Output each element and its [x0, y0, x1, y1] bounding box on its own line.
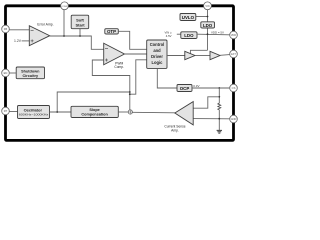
svg-text:OTP: OTP [107, 29, 116, 34]
wire PWM comp lower input loop from summer [92, 60, 130, 110]
pin CS [230, 84, 238, 92]
resistor R1 [218, 103, 221, 110]
node VDD junction [207, 33, 209, 35]
svg-text:Error Amp.: Error Amp. [37, 22, 53, 26]
pin VDD [230, 31, 238, 39]
OCP block [177, 85, 192, 92]
wire VIN pin down through LDO [207, 10, 209, 51]
svg-text:LDO: LDO [184, 33, 194, 38]
svg-text:Circuitry: Circuitry [22, 74, 39, 78]
svg-text:Shutdown: Shutdown [21, 69, 40, 73]
control and driver logic block [147, 40, 167, 68]
wire supply elbow to driver [190, 50, 207, 53]
wire slope compensation to summer [118, 111, 128, 113]
svg-text:EN: EN [4, 71, 8, 75]
svg-text:EXT: EXT [231, 53, 236, 56]
svg-text:and: and [153, 48, 161, 53]
plus mark error amp [31, 39, 34, 42]
svg-text:Comp.: Comp. [114, 65, 124, 69]
svg-text:Amp.: Amp. [171, 128, 179, 132]
wire OCP to CS pin [192, 87, 230, 89]
svg-text:VDD = 5V: VDD = 5V [211, 30, 224, 34]
svg-text:Control: Control [150, 42, 165, 47]
summing node [128, 110, 132, 114]
wire COMP pin down to rail [63, 10, 65, 36]
svg-text:Compensation: Compensation [81, 113, 108, 117]
wire control logic branch to summer node [130, 60, 147, 94]
LDO block lower [181, 32, 197, 39]
wire VDD rail to VDD pin [197, 33, 230, 36]
svg-text:RT: RT [4, 109, 8, 113]
svg-text:600KHz~1000KHz: 600KHz~1000KHz [19, 112, 49, 116]
pin RT [2, 107, 10, 115]
driver buffer 2 [210, 51, 220, 59]
pin COMP [61, 2, 69, 10]
pin VIN [204, 2, 212, 10]
pin EXT [230, 50, 238, 58]
svg-text:COMP: COMP [61, 6, 68, 8]
node clock junction [56, 111, 58, 113]
svg-text:OCP: OCP [180, 86, 190, 91]
wire driver2 to EXT pin [220, 54, 230, 57]
node branch junction [129, 93, 131, 95]
wire soft start down to rail [79, 29, 81, 36]
plus mark PWM comp [105, 59, 108, 62]
driver buffer 1 [185, 51, 195, 59]
wire oscillator to slope compensation [50, 111, 72, 113]
wire logic down to OCP [157, 68, 177, 88]
shutdown circuitry block [16, 67, 44, 79]
minus mark PWM comp [105, 48, 108, 50]
wire clock up to summer node [57, 92, 130, 112]
minus mark error amp [31, 29, 34, 31]
svg-text:LDO: LDO [203, 23, 213, 28]
LDO block upper [201, 22, 215, 28]
wire summer to current sense amp [132, 111, 174, 114]
wire current sense amp upper input [193, 97, 219, 108]
current sense amp U3 [175, 102, 193, 125]
soft start block [71, 15, 89, 29]
wire RT to oscillator [9, 111, 18, 113]
PWM comparator U2 [104, 43, 125, 65]
wire UVLO to VIN rail [196, 16, 208, 18]
node UVLO junction [207, 16, 209, 18]
OTP block [105, 29, 119, 34]
svg-text:0.3V: 0.3V [193, 84, 199, 88]
wire resistor to ground [218, 110, 220, 131]
node clock to summer line junction [129, 91, 131, 93]
svg-text:Logic: Logic [152, 60, 164, 65]
node COMP junction [63, 35, 65, 37]
IC boundary [6, 6, 234, 141]
pin FB [2, 25, 10, 33]
svg-text:Start: Start [75, 22, 85, 27]
wire logic to driver 1 [167, 55, 185, 57]
svg-text:VIN: VIN [205, 5, 209, 8]
svg-text:VDD: VDD [231, 34, 236, 37]
pin EN [2, 69, 10, 77]
wire CS node down to resistor [218, 88, 220, 103]
pin GND [230, 115, 238, 123]
wire FB to error amp input [9, 29, 29, 31]
svg-text:GND: GND [231, 118, 237, 121]
ground [217, 130, 222, 133]
svg-text:4.5V: 4.5V [166, 34, 172, 38]
svg-text:CS: CS [232, 86, 236, 90]
wire driver1 to driver2 [195, 55, 210, 57]
error amp U1 [29, 26, 49, 46]
wire current sense amp lower input to GND pin [193, 118, 230, 120]
node CS junction [218, 87, 220, 89]
svg-text:Driver: Driver [151, 54, 163, 59]
UVLO block [180, 14, 196, 21]
wire label to LDO2 [177, 33, 181, 35]
wire 1.2V to error amp input [22, 40, 30, 42]
wire OTP to control logic [118, 31, 146, 49]
svg-text:1.2V: 1.2V [14, 39, 22, 43]
svg-text:FB: FB [4, 27, 8, 31]
node sense junction [218, 96, 220, 98]
wire error amp output rail to PWM comp [50, 36, 104, 49]
slope compensation block [71, 106, 118, 117]
node soft start junction [79, 35, 81, 37]
wire EN to shutdown [9, 72, 16, 74]
svg-text:UVLO: UVLO [182, 15, 195, 20]
wire PWM comp output to control logic [125, 53, 147, 55]
node ground line junction [218, 118, 220, 120]
oscillator block [18, 106, 50, 119]
svg-text:Slope: Slope [89, 108, 99, 112]
